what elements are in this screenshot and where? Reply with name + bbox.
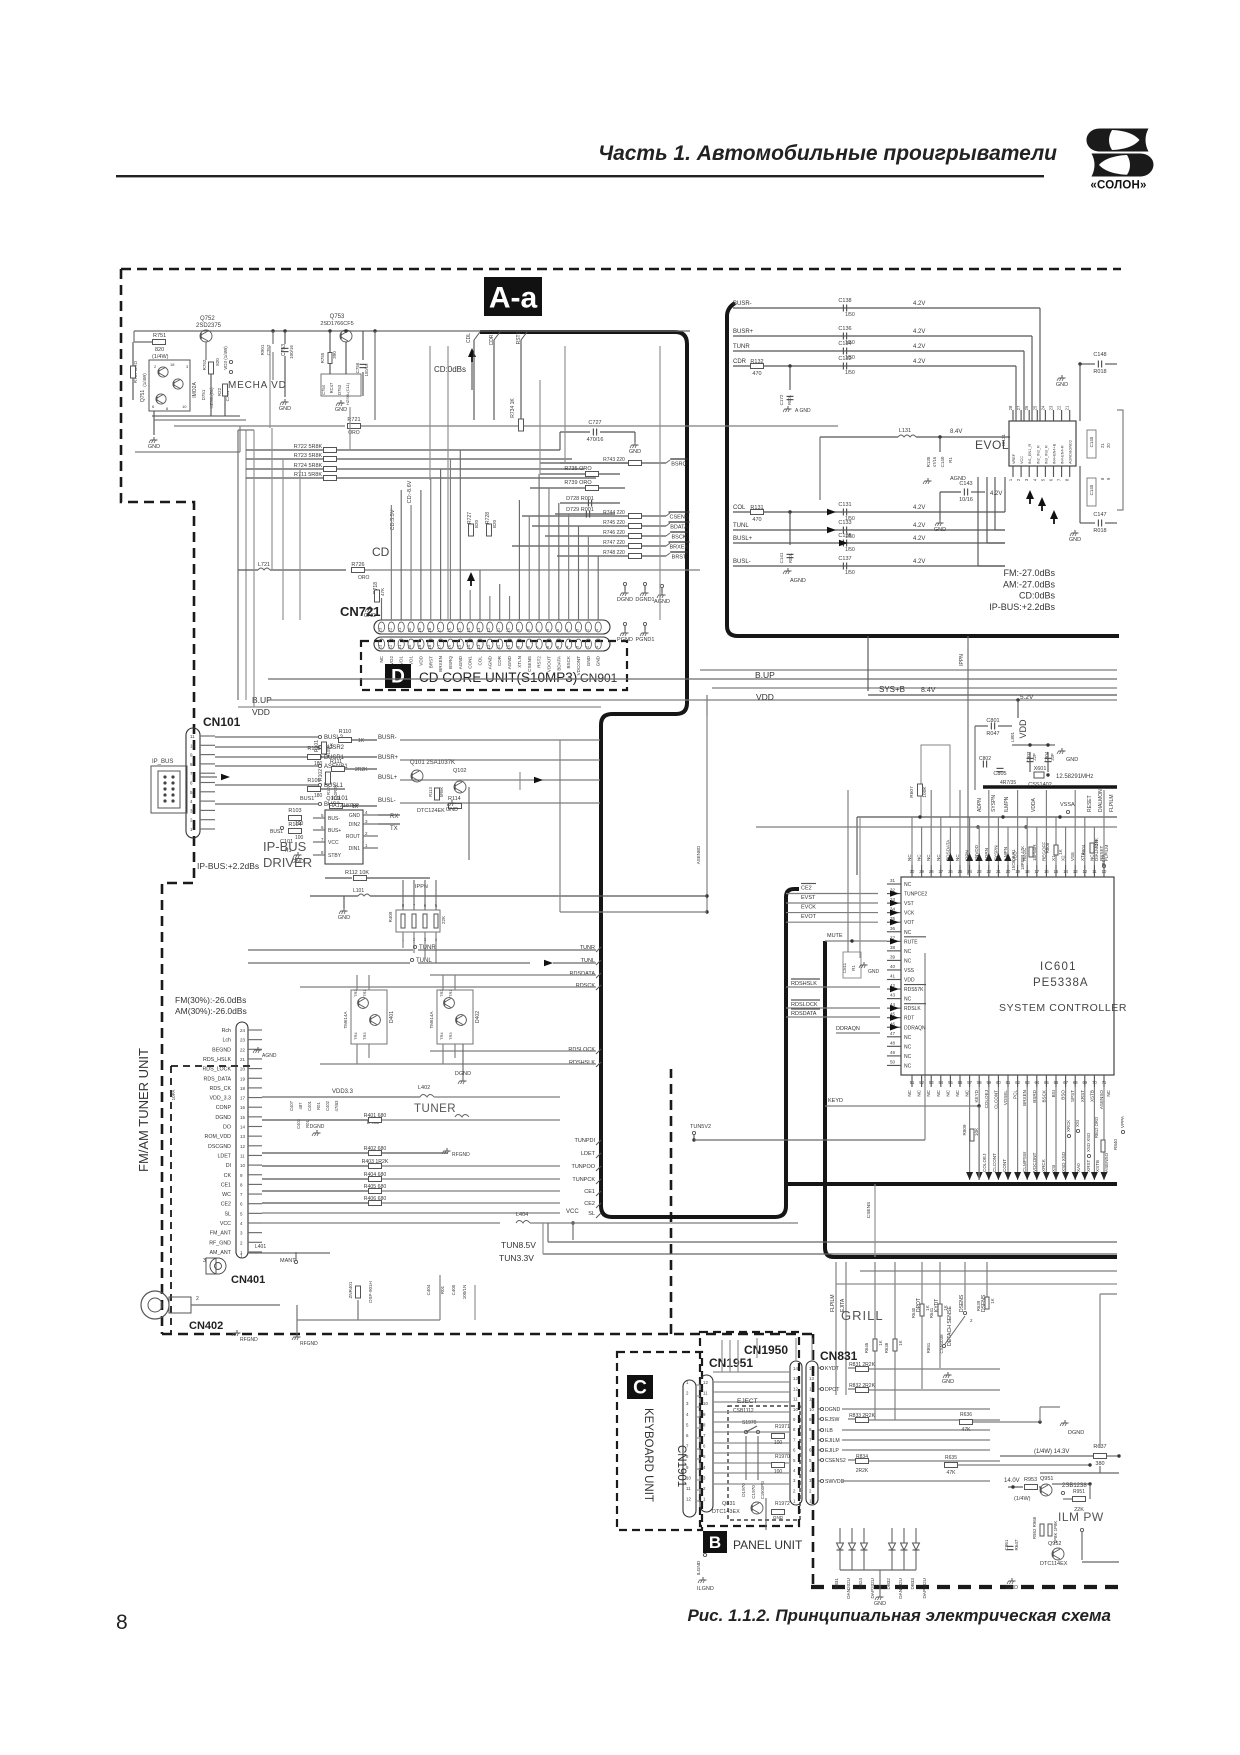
svg-text:BSCK: BSCK xyxy=(672,535,687,541)
svg-text:11: 11 xyxy=(809,1397,814,1402)
svg-text:28: 28 xyxy=(1008,405,1013,410)
svg-text:NC: NC xyxy=(945,1089,950,1096)
svg-text:TM614A: TM614A xyxy=(429,1011,434,1028)
svg-text:VPPA: VPPA xyxy=(1120,1115,1125,1128)
svg-text:EVCK: EVCK xyxy=(801,905,816,911)
svg-text:NC: NC xyxy=(955,854,960,861)
svg-text:49: 49 xyxy=(890,1050,896,1055)
svg-text:GND: GND xyxy=(596,655,601,666)
svg-text:2: 2 xyxy=(793,1488,796,1493)
svg-text:CN401: CN401 xyxy=(231,1274,265,1286)
svg-text:NC: NC xyxy=(904,882,912,888)
svg-text:DRIVER: DRIVER xyxy=(263,855,312,870)
svg-text:S1970: S1970 xyxy=(742,1420,757,1426)
svg-text:47K: 47K xyxy=(947,1470,957,1476)
svg-text:C801: C801 xyxy=(986,718,999,724)
svg-text:R047: R047 xyxy=(986,731,999,737)
svg-text:55: 55 xyxy=(948,1080,953,1085)
svg-text:VDD3.3: VDD3.3 xyxy=(332,1089,354,1095)
svg-text:R805: R805 xyxy=(1045,842,1050,853)
svg-text:R018: R018 xyxy=(1093,369,1106,375)
svg-text:CSS1402: CSS1402 xyxy=(1028,782,1052,788)
svg-text:CDR: CDR xyxy=(733,359,747,365)
svg-text:R953: R953 xyxy=(1024,1477,1037,1483)
svg-text:6: 6 xyxy=(686,1433,689,1438)
svg-text:L801: L801 xyxy=(1010,731,1015,742)
svg-text:R952 R968: R952 R968 xyxy=(1032,1516,1037,1539)
svg-text:1/50: 1/50 xyxy=(845,370,855,376)
svg-text:R001: R001 xyxy=(787,394,792,405)
svg-text:GND: GND xyxy=(1066,757,1078,763)
svg-text:VDD: VDD xyxy=(418,655,423,665)
svg-text:TUNPCK: TUNPCK xyxy=(572,1177,595,1183)
svg-text:23: 23 xyxy=(1049,405,1054,410)
svg-text:R639: R639 xyxy=(976,1300,981,1311)
svg-text:R111: R111 xyxy=(330,759,342,765)
svg-text:GND: GND xyxy=(934,527,946,533)
svg-text:CN831: CN831 xyxy=(820,1349,858,1363)
svg-text:CE1: CE1 xyxy=(584,1189,595,1195)
svg-text:CDR: CDR xyxy=(497,655,502,666)
svg-text:NC: NC xyxy=(926,854,931,861)
svg-text:R22: R22 xyxy=(217,387,222,396)
svg-text:18: 18 xyxy=(1025,869,1030,874)
svg-text:CD: CD xyxy=(372,545,390,559)
svg-text:50: 50 xyxy=(890,1059,896,1064)
svg-text:RDSLOCK: RDSLOCK xyxy=(568,1047,595,1053)
svg-text:C134: C134 xyxy=(838,341,851,347)
svg-text:(1/4W): (1/4W) xyxy=(1014,1496,1031,1502)
svg-text:4.2V: 4.2V xyxy=(913,329,925,335)
svg-text:DIN2: DIN2 xyxy=(349,822,361,828)
svg-text:ILGND: ILGND xyxy=(696,1560,702,1575)
svg-text:22K: 22K xyxy=(441,916,446,924)
svg-text:ADPN: ADPN xyxy=(977,798,983,812)
svg-text:27: 27 xyxy=(938,869,943,874)
svg-text:RC47: RC47 xyxy=(329,382,334,393)
svg-text:100/1N: 100/1N xyxy=(462,1285,467,1300)
svg-text:C404: C404 xyxy=(426,1284,431,1295)
svg-text:SL: SL xyxy=(588,1211,595,1217)
svg-text:BUSR+: BUSR+ xyxy=(378,755,399,761)
svg-text:R1: R1 xyxy=(851,965,856,971)
svg-text:4.2V: 4.2V xyxy=(913,505,925,511)
svg-text:ILB: ILB xyxy=(825,1428,833,1434)
svg-text:R951: R951 xyxy=(1073,1489,1085,1495)
svg-text:CN901: CN901 xyxy=(580,671,618,685)
svg-text:GND: GND xyxy=(349,813,361,819)
svg-text:18: 18 xyxy=(240,1086,246,1091)
svg-text:12: 12 xyxy=(703,1380,708,1385)
svg-text:(1/4W): (1/4W) xyxy=(152,354,169,360)
svg-text:7: 7 xyxy=(703,1433,706,1438)
svg-text:AM:-27.0dBs: AM:-27.0dBs xyxy=(1003,579,1056,589)
svg-text:3: 3 xyxy=(186,364,189,369)
svg-text:13: 13 xyxy=(793,1376,798,1381)
svg-text:390: 390 xyxy=(332,351,337,359)
svg-text:D1970: D1970 xyxy=(741,1483,746,1497)
svg-text:CDL: CDL xyxy=(466,333,472,343)
svg-text:57: 57 xyxy=(967,1080,972,1085)
svg-text:AGND: AGND xyxy=(507,655,512,669)
svg-text:VDD: VDD xyxy=(904,978,915,984)
svg-text:R809: R809 xyxy=(962,1124,967,1135)
svg-text:R744 220: R744 220 xyxy=(603,510,625,516)
svg-text:B20: B20 xyxy=(492,520,497,529)
svg-text:DTC124EK: DTC124EK xyxy=(417,808,445,814)
svg-text:RDS57K: RDS57K xyxy=(904,987,924,993)
svg-text:L131: L131 xyxy=(899,428,911,434)
svg-text:10PA: 10PA xyxy=(171,1090,176,1101)
svg-text:C145: C145 xyxy=(1089,484,1094,495)
svg-text:BRST: BRST xyxy=(428,656,433,668)
svg-text:BUSR-: BUSR- xyxy=(733,301,752,307)
svg-text:FM_ANT: FM_ANT xyxy=(210,1231,232,1237)
svg-text:9: 9 xyxy=(190,753,193,758)
svg-text:2: 2 xyxy=(686,1391,689,1396)
svg-text:4: 4 xyxy=(1032,478,1037,481)
svg-text:R607: R607 xyxy=(909,786,915,798)
svg-text:100K: 100K xyxy=(922,786,928,798)
svg-text:RFGND: RFGND xyxy=(240,1337,258,1343)
svg-text:23: 23 xyxy=(240,1038,246,1043)
svg-text:R636: R636 xyxy=(960,1412,972,1418)
svg-text:39: 39 xyxy=(890,954,896,959)
svg-text:X1: X1 xyxy=(1051,855,1056,861)
svg-text:IC601: IC601 xyxy=(1040,961,1077,973)
svg-text:B20: B20 xyxy=(474,520,479,529)
svg-text:BSCK: BSCK xyxy=(566,655,571,668)
svg-text:LDET: LDET xyxy=(581,1151,596,1157)
svg-text:470/16: 470/16 xyxy=(587,437,604,443)
svg-text:2: 2 xyxy=(703,1486,706,1491)
svg-text:VDD: VDD xyxy=(756,692,774,702)
svg-text:100: 100 xyxy=(774,1440,783,1446)
svg-text:R102: R102 xyxy=(318,769,324,781)
svg-text:R018: R018 xyxy=(1093,528,1106,534)
svg-text:GND: GND xyxy=(1069,537,1081,543)
svg-text:R734 1K: R734 1K xyxy=(510,398,516,418)
svg-text:MANT: MANT xyxy=(280,1258,296,1264)
svg-text:12: 12 xyxy=(793,1386,798,1391)
svg-text:D402: D402 xyxy=(475,1011,481,1023)
svg-text:9: 9 xyxy=(240,1173,243,1178)
svg-text:5: 5 xyxy=(240,1211,243,1216)
svg-text:EJILM: EJILM xyxy=(825,1438,840,1444)
svg-text:R101: R101 xyxy=(314,740,320,752)
svg-text:B.UP: B.UP xyxy=(755,670,775,680)
svg-text:VCC: VCC xyxy=(220,1221,231,1227)
svg-text:CONT: CONT xyxy=(1002,1159,1007,1172)
svg-text:ORO: ORO xyxy=(358,575,370,581)
svg-text:100: 100 xyxy=(774,1469,783,1475)
svg-text:CLCONT: CLCONT xyxy=(992,1153,997,1172)
svg-text:7: 7 xyxy=(321,837,324,842)
svg-text:RDS_CK: RDS_CK xyxy=(210,1086,232,1092)
svg-text:L404: L404 xyxy=(516,1212,528,1218)
svg-text:DGND1: DGND1 xyxy=(635,597,654,603)
svg-text:DO: DO xyxy=(223,1125,231,1131)
svg-text:5: 5 xyxy=(321,813,324,818)
svg-text:BRST: BRST xyxy=(672,555,687,561)
svg-text:L101: L101 xyxy=(353,888,364,894)
svg-text:10: 10 xyxy=(793,1407,798,1412)
svg-text:5: 5 xyxy=(703,1454,706,1459)
svg-text:R110: R110 xyxy=(339,729,352,735)
svg-text:56: 56 xyxy=(958,1080,963,1085)
svg-text:10: 10 xyxy=(809,1407,814,1412)
svg-text:DDRAQN: DDRAQN xyxy=(836,1026,860,1032)
svg-text:DAP202U: DAP202U xyxy=(922,1578,927,1598)
svg-text:10: 10 xyxy=(190,743,196,748)
svg-text:53: 53 xyxy=(929,1080,934,1085)
svg-text:R645: R645 xyxy=(864,1342,869,1353)
svg-text:180: 180 xyxy=(314,793,323,799)
svg-text:C753: C753 xyxy=(281,344,287,356)
svg-text:D401: D401 xyxy=(389,1011,395,1023)
svg-text:8: 8 xyxy=(703,1422,706,1427)
svg-text:R727: R727 xyxy=(467,512,473,524)
svg-text:DTC114EX: DTC114EX xyxy=(1040,1561,1068,1567)
svg-text:4.2V: 4.2V xyxy=(913,536,925,542)
svg-text:Q951: Q951 xyxy=(1040,1476,1053,1482)
svg-text:47K: 47K xyxy=(380,588,385,596)
svg-text:GND: GND xyxy=(1006,1585,1018,1591)
svg-text:NC: NC xyxy=(936,1089,941,1096)
svg-text:C136: C136 xyxy=(838,326,851,332)
svg-text:NC: NC xyxy=(1106,1089,1111,1096)
svg-text:AM(30%):-26.0dBs: AM(30%):-26.0dBs xyxy=(175,1006,247,1016)
svg-text:R638: R638 xyxy=(884,1342,889,1353)
svg-text:6: 6 xyxy=(190,781,193,786)
svg-text:ASENSO: ASENSO xyxy=(1099,1090,1104,1110)
svg-text:R711 5R8K: R711 5R8K xyxy=(294,472,322,478)
svg-text:NC: NC xyxy=(379,655,384,662)
svg-text:DIN1: DIN1 xyxy=(349,846,361,852)
svg-text:VDD_3.3: VDD_3.3 xyxy=(210,1096,232,1102)
svg-text:5: 5 xyxy=(809,1458,812,1463)
svg-text:R1971: R1971 xyxy=(775,1424,790,1430)
svg-text:1: 1 xyxy=(365,843,368,848)
svg-text:GND: GND xyxy=(942,1379,954,1385)
svg-text:FLPILM: FLPILM xyxy=(1109,794,1115,812)
svg-text:DSCGND: DSCGND xyxy=(208,1144,231,1150)
svg-text:X2: X2 xyxy=(1061,855,1066,861)
svg-text:6: 6 xyxy=(152,404,155,409)
svg-text:C145: C145 xyxy=(1089,436,1094,447)
svg-text:COLOEJ: COLOEJ xyxy=(982,1154,987,1172)
svg-text:8.4V: 8.4V xyxy=(921,687,936,694)
svg-text:DPOT: DPOT xyxy=(825,1387,840,1393)
svg-text:R1: R1 xyxy=(948,457,953,463)
svg-text:BRXEN: BRXEN xyxy=(1022,1090,1027,1106)
svg-text:HZS6L(C11): HZS6L(C11) xyxy=(345,382,350,405)
svg-text:DSP-901H: DSP-901H xyxy=(368,1281,373,1303)
svg-text:CE2: CE2 xyxy=(221,1202,231,1208)
svg-text:TUN5V2: TUN5V2 xyxy=(690,1124,711,1130)
svg-text:22P: 22P xyxy=(1032,753,1037,761)
svg-text:RDSLK: RDSLK xyxy=(904,1006,921,1012)
svg-text:12: 12 xyxy=(686,1497,691,1502)
svg-text:PE5338A: PE5338A xyxy=(1033,977,1089,989)
svg-text:Q751: Q751 xyxy=(140,390,146,402)
svg-text:DB33: DB33 xyxy=(910,1578,915,1590)
svg-text:47K: 47K xyxy=(962,1427,972,1433)
svg-text:EJILP: EJILP xyxy=(825,1448,839,1454)
svg-text:NC: NC xyxy=(917,854,922,861)
svg-text:R745 220: R745 220 xyxy=(603,520,625,526)
svg-text:16: 16 xyxy=(240,1105,246,1110)
svg-text:C756: C756 xyxy=(355,362,360,373)
svg-text:8: 8 xyxy=(1065,478,1070,481)
svg-text:TUN8.5V: TUN8.5V xyxy=(501,1240,536,1250)
svg-text:CSENS2: CSENS2 xyxy=(825,1458,846,1464)
svg-text:LDET: LDET xyxy=(217,1153,231,1159)
svg-text:1: 1 xyxy=(190,827,193,832)
svg-text:C727: C727 xyxy=(588,420,601,426)
svg-text:BRXEN: BRXEN xyxy=(670,545,689,551)
svg-text:NC: NC xyxy=(907,1089,912,1096)
svg-text:DAP202U: DAP202U xyxy=(870,1578,875,1598)
svg-text:22: 22 xyxy=(1057,405,1062,410)
svg-text:TX: TX xyxy=(390,826,398,832)
svg-text:R1972: R1972 xyxy=(775,1501,790,1507)
svg-text:TM614A: TM614A xyxy=(343,1011,348,1028)
svg-text:C754: C754 xyxy=(321,384,326,395)
svg-text:BUSL-: BUSL- xyxy=(378,798,396,804)
svg-text:2: 2 xyxy=(154,364,157,369)
svg-text:17: 17 xyxy=(1034,869,1039,874)
svg-text:Rch: Rch xyxy=(222,1028,231,1034)
svg-text:6: 6 xyxy=(809,1448,812,1453)
svg-text:DAN202U: DAN202U xyxy=(898,1578,903,1599)
svg-text:9: 9 xyxy=(793,1417,796,1422)
svg-text:KEYD: KEYD xyxy=(974,1089,979,1102)
svg-text:2: 2 xyxy=(1016,478,1021,481)
svg-text:FLPILM: FLPILM xyxy=(830,1294,836,1312)
svg-text:60: 60 xyxy=(996,1080,1001,1085)
svg-text:RB12 ORO: RB12 ORO xyxy=(1094,1116,1099,1138)
svg-text:1: 1 xyxy=(793,1499,796,1504)
svg-text:BUSL-: BUSL- xyxy=(733,559,751,565)
svg-text:TR4: TR4 xyxy=(439,1032,444,1040)
svg-text:RDS_HSLK: RDS_HSLK xyxy=(203,1057,231,1063)
svg-text:GND: GND xyxy=(279,406,291,412)
svg-text:TR1: TR1 xyxy=(448,989,453,997)
svg-text:BSCK: BSCK xyxy=(1041,1089,1046,1102)
svg-text:21: 21 xyxy=(1100,443,1105,448)
svg-text:AGND: AGND xyxy=(458,655,463,669)
svg-text:R901: R901 xyxy=(260,344,265,355)
svg-text:24: 24 xyxy=(967,869,972,874)
svg-text:Часть 1. Автомобильные проигры: Часть 1. Автомобильные проигрыватели xyxy=(598,142,1057,165)
svg-text:10/16: 10/16 xyxy=(959,497,973,503)
svg-text:16: 16 xyxy=(1044,869,1049,874)
svg-text:BSO: BSO xyxy=(1061,1090,1066,1100)
svg-text:IN4-EN4-R: IN4-EN4-R xyxy=(1061,445,1065,464)
svg-text:R747 220: R747 220 xyxy=(603,540,625,546)
svg-text:4.2V: 4.2V xyxy=(913,359,925,365)
svg-text:3: 3 xyxy=(809,1478,812,1483)
svg-text:15: 15 xyxy=(1054,869,1059,874)
svg-text:NC: NC xyxy=(907,854,912,861)
svg-text:48: 48 xyxy=(890,1040,896,1045)
svg-text:1K: 1K xyxy=(358,738,365,744)
svg-text:CD CORE UNIT(S10MP3): CD CORE UNIT(S10MP3) xyxy=(419,670,577,685)
svg-text:MUTE: MUTE xyxy=(827,933,843,939)
svg-text:67: 67 xyxy=(1063,1080,1068,1085)
svg-text:TUNL: TUNL xyxy=(581,958,595,964)
svg-text:21: 21 xyxy=(240,1057,246,1062)
svg-text:DGND: DGND xyxy=(825,1407,841,1413)
svg-text:VSSA: VSSA xyxy=(1060,802,1075,808)
svg-text:ASENBD: ASENBD xyxy=(696,845,701,864)
svg-text:X601: X601 xyxy=(1034,766,1047,772)
svg-text:IC131: IC131 xyxy=(1001,434,1006,447)
svg-text:1K: 1K xyxy=(1058,849,1063,854)
svg-text:6: 6 xyxy=(240,1202,243,1207)
svg-text:R001: R001 xyxy=(788,552,793,563)
svg-text:2SD2375: 2SD2375 xyxy=(196,323,222,329)
svg-text:38: 38 xyxy=(890,945,896,950)
svg-text:52: 52 xyxy=(919,1080,924,1085)
svg-text:C951: C951 xyxy=(1004,1539,1009,1550)
svg-text:R804: R804 xyxy=(1081,844,1086,855)
svg-text:L401: L401 xyxy=(255,1244,266,1250)
svg-text:A GND: A GND xyxy=(795,408,811,414)
svg-text:NC: NC xyxy=(936,854,941,861)
svg-text:L402: L402 xyxy=(418,1085,430,1091)
svg-text:470: 470 xyxy=(752,517,761,523)
svg-text:C135: C135 xyxy=(838,533,851,539)
svg-text:1K: 1K xyxy=(878,1340,883,1345)
svg-text:Q101 2SA1037K: Q101 2SA1037K xyxy=(410,760,455,766)
svg-text:R635: R635 xyxy=(945,1455,957,1461)
svg-text:SL: SL xyxy=(225,1211,232,1217)
svg-text:3: 3 xyxy=(793,1478,796,1483)
svg-text:R114: R114 xyxy=(448,796,461,802)
svg-text:3: 3 xyxy=(365,819,368,824)
svg-text:R724 5R8K: R724 5R8K xyxy=(294,463,323,469)
svg-text:XSD XSD: XSD XSD xyxy=(1086,1133,1091,1152)
svg-text:COLOEJ: COLOEJ xyxy=(984,1090,989,1108)
svg-text:14: 14 xyxy=(793,1366,798,1371)
svg-text:R751: R751 xyxy=(153,333,166,339)
svg-text:5: 5 xyxy=(190,790,193,795)
svg-text:VD1: VD1 xyxy=(399,656,404,665)
svg-text:BUSL+: BUSL+ xyxy=(733,536,753,542)
svg-text:4: 4 xyxy=(240,1221,243,1226)
svg-text:2: 2 xyxy=(809,1488,812,1493)
svg-text:TR1: TR1 xyxy=(362,989,367,997)
svg-text:GND: GND xyxy=(446,807,458,813)
svg-text:IMO2A: IMO2A xyxy=(192,382,198,398)
svg-text:CSENS: CSENS xyxy=(866,1202,872,1219)
svg-text:SYSPN: SYSPN xyxy=(991,795,997,812)
svg-text:VD2: VD2 xyxy=(389,656,394,665)
svg-text:4: 4 xyxy=(703,1465,706,1470)
svg-text:21: 21 xyxy=(996,869,1001,874)
svg-text:Q753: Q753 xyxy=(330,314,345,320)
svg-text:SYS+B: SYS+B xyxy=(879,685,905,694)
svg-text:NC: NC xyxy=(904,1035,912,1041)
svg-text:EJECT: EJECT xyxy=(737,1398,758,1405)
svg-text:CONP: CONP xyxy=(216,1105,232,1111)
svg-text:6: 6 xyxy=(703,1444,706,1449)
svg-text:62: 62 xyxy=(1015,1080,1020,1085)
svg-text:VD3 (1/4W): VD3 (1/4W) xyxy=(223,346,228,370)
svg-text:RST2: RST2 xyxy=(537,656,542,668)
